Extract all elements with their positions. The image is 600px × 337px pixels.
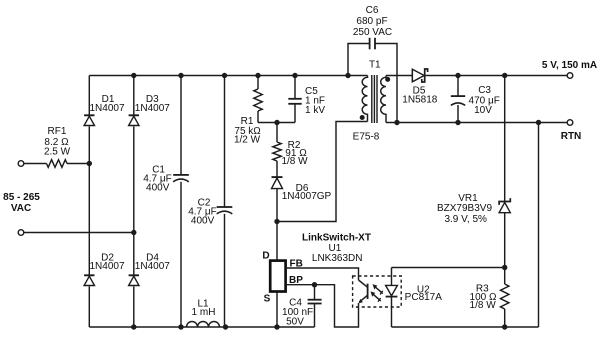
wire secondary bottom / RTN bbox=[386, 122, 567, 124]
label R2 bbox=[281, 140, 308, 167]
label VR1 bbox=[437, 193, 492, 225]
svg-text:1/8 W: 1/8 W bbox=[470, 300, 497, 311]
svg-text:C3: C3 bbox=[478, 85, 491, 96]
LED U2 branch bbox=[391, 268, 393, 328]
svg-text:400V: 400V bbox=[191, 216, 215, 227]
wire R1 branch bbox=[257, 76, 259, 123]
wire BP bbox=[286, 285, 359, 327]
label R3 bbox=[470, 284, 497, 312]
svg-text:250 VAC: 250 VAC bbox=[353, 27, 392, 38]
wire secondary top to D5 bbox=[386, 75, 412, 77]
svg-text:T1: T1 bbox=[369, 59, 381, 70]
node primary polarity dot bbox=[360, 115, 365, 120]
svg-text:85 - 265: 85 - 265 bbox=[3, 192, 40, 203]
wire left bridge branch D1/D2 bbox=[88, 76, 90, 328]
svg-text:1N4007: 1N4007 bbox=[135, 261, 170, 272]
label D2 bbox=[89, 253, 124, 273]
svg-text:1N4007: 1N4007 bbox=[135, 103, 170, 114]
wire bottom secondary rail bbox=[392, 326, 539, 328]
svg-text:BZX79B3V9: BZX79B3V9 bbox=[437, 203, 492, 214]
wire D5 to output bbox=[426, 75, 568, 77]
capacitor C4 bbox=[314, 285, 316, 327]
node secondary polarity dot bbox=[385, 77, 390, 82]
wire C2 branch bbox=[224, 76, 226, 328]
wire feedback top bbox=[392, 267, 505, 269]
wire clamp to drain / primary bottom bbox=[277, 122, 368, 222]
svg-text:50V: 50V bbox=[286, 317, 304, 328]
svg-text:LNK363DN: LNK363DN bbox=[312, 253, 363, 264]
svg-text:2.5 W: 2.5 W bbox=[44, 147, 71, 158]
zener VR1 bbox=[499, 198, 510, 213]
svg-text:S: S bbox=[264, 294, 271, 305]
svg-text:VAC: VAC bbox=[11, 203, 31, 214]
terminal AC input bottom bbox=[18, 230, 24, 236]
svg-text:1N5818: 1N5818 bbox=[402, 95, 437, 106]
diode D2 bbox=[84, 274, 94, 276]
wire AC input line 2 bbox=[24, 232, 134, 234]
wire VR1 branch bbox=[504, 76, 506, 268]
wire C1 branch bbox=[180, 76, 182, 328]
label L1 bbox=[192, 299, 216, 319]
wire C6 loop bbox=[348, 44, 397, 123]
svg-text:LinkSwitch-XT: LinkSwitch-XT bbox=[302, 233, 371, 244]
transformer T1 secondary winding bbox=[381, 76, 386, 123]
svg-text:400V: 400V bbox=[146, 183, 170, 194]
wire bottom primary rail bbox=[89, 326, 314, 328]
capacitor C6 bbox=[369, 38, 371, 50]
diode D1 bbox=[84, 114, 94, 116]
wire second bridge branch D3/D4 bbox=[133, 76, 135, 328]
svg-text:C6: C6 bbox=[366, 5, 379, 16]
wire FB to optocoupler bbox=[286, 268, 359, 280]
wire top DC bus bbox=[89, 75, 367, 77]
capacitor C1 bbox=[173, 174, 189, 176]
label RF1 value bbox=[44, 126, 71, 158]
resistor R2 bbox=[273, 142, 281, 161]
label C2 bbox=[188, 197, 217, 226]
svg-text:1 mH: 1 mH bbox=[192, 307, 216, 318]
svg-text:3.9 V, 5%: 3.9 V, 5% bbox=[444, 214, 487, 225]
wire U1 source pin bbox=[276, 292, 278, 328]
capacitor C3 bbox=[451, 95, 465, 97]
svg-text:1N4007GP: 1N4007GP bbox=[282, 191, 332, 202]
LED of optocoupler U2 bbox=[386, 285, 398, 296]
svg-text:1/8 W: 1/8 W bbox=[281, 156, 308, 167]
svg-text:10V: 10V bbox=[474, 105, 492, 116]
wire C5 branch bbox=[294, 76, 296, 123]
terminal 5V output bbox=[567, 73, 573, 79]
svg-text:RF1: RF1 bbox=[48, 126, 67, 137]
label D5 bbox=[402, 86, 437, 106]
wire RTN down right side bbox=[538, 123, 540, 328]
label D1 bbox=[89, 94, 124, 114]
svg-text:1N4007: 1N4007 bbox=[89, 261, 124, 272]
light arrows bbox=[371, 284, 383, 302]
label D6 bbox=[282, 183, 332, 202]
wire R2/D6 clamp branch bbox=[276, 123, 278, 222]
resistor R3 bbox=[504, 268, 506, 328]
phototransistor of U2 bbox=[359, 280, 368, 303]
optocoupler U2 dashed outline bbox=[353, 276, 402, 307]
svg-text:RTN: RTN bbox=[561, 131, 582, 142]
diode D4 bbox=[129, 274, 139, 276]
diode D6 bbox=[272, 176, 283, 178]
svg-text:E75-8: E75-8 bbox=[353, 131, 380, 142]
svg-text:PC817A: PC817A bbox=[405, 292, 443, 303]
terminal AC input top bbox=[18, 161, 24, 167]
label C3 bbox=[469, 85, 500, 116]
wire AC input line 1 bbox=[24, 163, 90, 165]
label D4 bbox=[135, 253, 170, 273]
svg-text:1N4007: 1N4007 bbox=[89, 103, 124, 114]
label input voltage 85-265 VAC bbox=[3, 192, 40, 214]
transformer T1 primary winding bbox=[362, 76, 367, 122]
label C1 bbox=[143, 165, 172, 194]
diode D3 bbox=[129, 114, 139, 116]
svg-text:5 V, 150 mA: 5 V, 150 mA bbox=[542, 60, 597, 71]
terminal RTN bbox=[567, 120, 573, 126]
label C6 bbox=[353, 5, 392, 38]
label C5 bbox=[305, 86, 325, 116]
wire R1-C5 bottom tie bbox=[258, 122, 295, 124]
transformer T1 core bbox=[372, 75, 377, 123]
label U2 bbox=[405, 284, 443, 303]
label D3 bbox=[135, 94, 170, 114]
capacitor C5 bbox=[288, 98, 301, 100]
resistor RF1 bbox=[47, 160, 68, 168]
svg-text:680 pF: 680 pF bbox=[356, 16, 387, 27]
capacitor C2 bbox=[217, 206, 233, 208]
resistor R1 bbox=[254, 89, 262, 111]
svg-text:1 kV: 1 kV bbox=[305, 105, 325, 116]
label C4 bbox=[282, 298, 313, 328]
diode D5 schottky bbox=[412, 69, 427, 82]
svg-text:1/2 W: 1/2 W bbox=[234, 135, 261, 146]
label R1 bbox=[234, 116, 261, 145]
IC U1 LNK363DN body bbox=[270, 261, 285, 292]
wire U1 drain pin bbox=[276, 222, 278, 261]
svg-text:D: D bbox=[262, 251, 269, 262]
inductor L1 bbox=[187, 322, 220, 328]
